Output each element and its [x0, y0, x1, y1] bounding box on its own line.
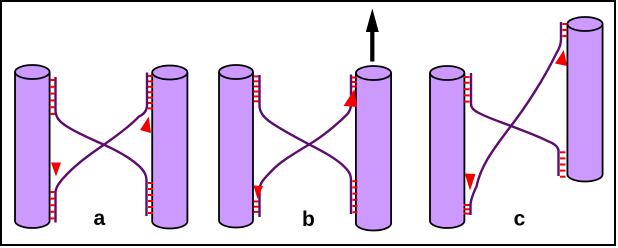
microtubule MT-a-left (cylinder body) [15, 65, 50, 228]
microtubule MT-c-right (cylinder body) [567, 17, 602, 181]
ladder rungs a-left-bottom [50, 192, 55, 218]
microtubule MT-b-right (cylinder body) [356, 66, 391, 230]
ladder rungs c-left-top [464, 77, 470, 102]
motor arrowhead a-left (points down) [51, 163, 61, 177]
filament c2: right-top rail to left-bottom rail [471, 22, 562, 215]
filament a1: left-top rail to right-bottom rail [56, 77, 147, 216]
ladder rungs b-right-bottom [353, 181, 358, 212]
svg-text:a: a [94, 207, 106, 230]
filament c1: left-top rail to right-bottom rail [471, 73, 559, 176]
svg-text:c: c [514, 208, 526, 231]
motor arrowhead a-right (points up) [140, 117, 151, 134]
motor arrowhead b-left (points down) [254, 186, 264, 200]
ladder rungs a-left-top [50, 80, 55, 114]
ladder rungs a-right-top [148, 76, 153, 108]
motor arrowhead c-left (points down) [465, 174, 476, 191]
microtubule MT-a-right (cylinder body) [152, 66, 187, 229]
ladder rungs a-right-bottom [148, 183, 153, 213]
svg-text:b: b [302, 208, 315, 231]
motor arrowhead b-right (points up) [344, 89, 358, 107]
microtubule MT-c-left (cylinder body) [430, 66, 464, 228]
ladder rungs c-right-top [563, 24, 568, 36]
force arrow (black, up) above right cylinder [366, 9, 379, 62]
ladder rungs c-right-bottom [560, 152, 566, 176]
filament a2: right-top rail to left-bottom rail [56, 73, 148, 223]
ladder rungs b-right-top [352, 78, 357, 87]
ladder rungs c-left-bottom [464, 205, 470, 214]
filament b2: right-top rail to left-bottom rail [260, 75, 352, 218]
ladder rungs b-left-top [254, 76, 259, 101]
ladder rungs b-left-bottom [254, 202, 259, 212]
motor arrowhead c-right (points up) [555, 50, 567, 66]
microtubule MT-b-left (cylinder body) [219, 65, 253, 228]
filament b1: left-top rail to right-bottom rail [260, 75, 352, 214]
